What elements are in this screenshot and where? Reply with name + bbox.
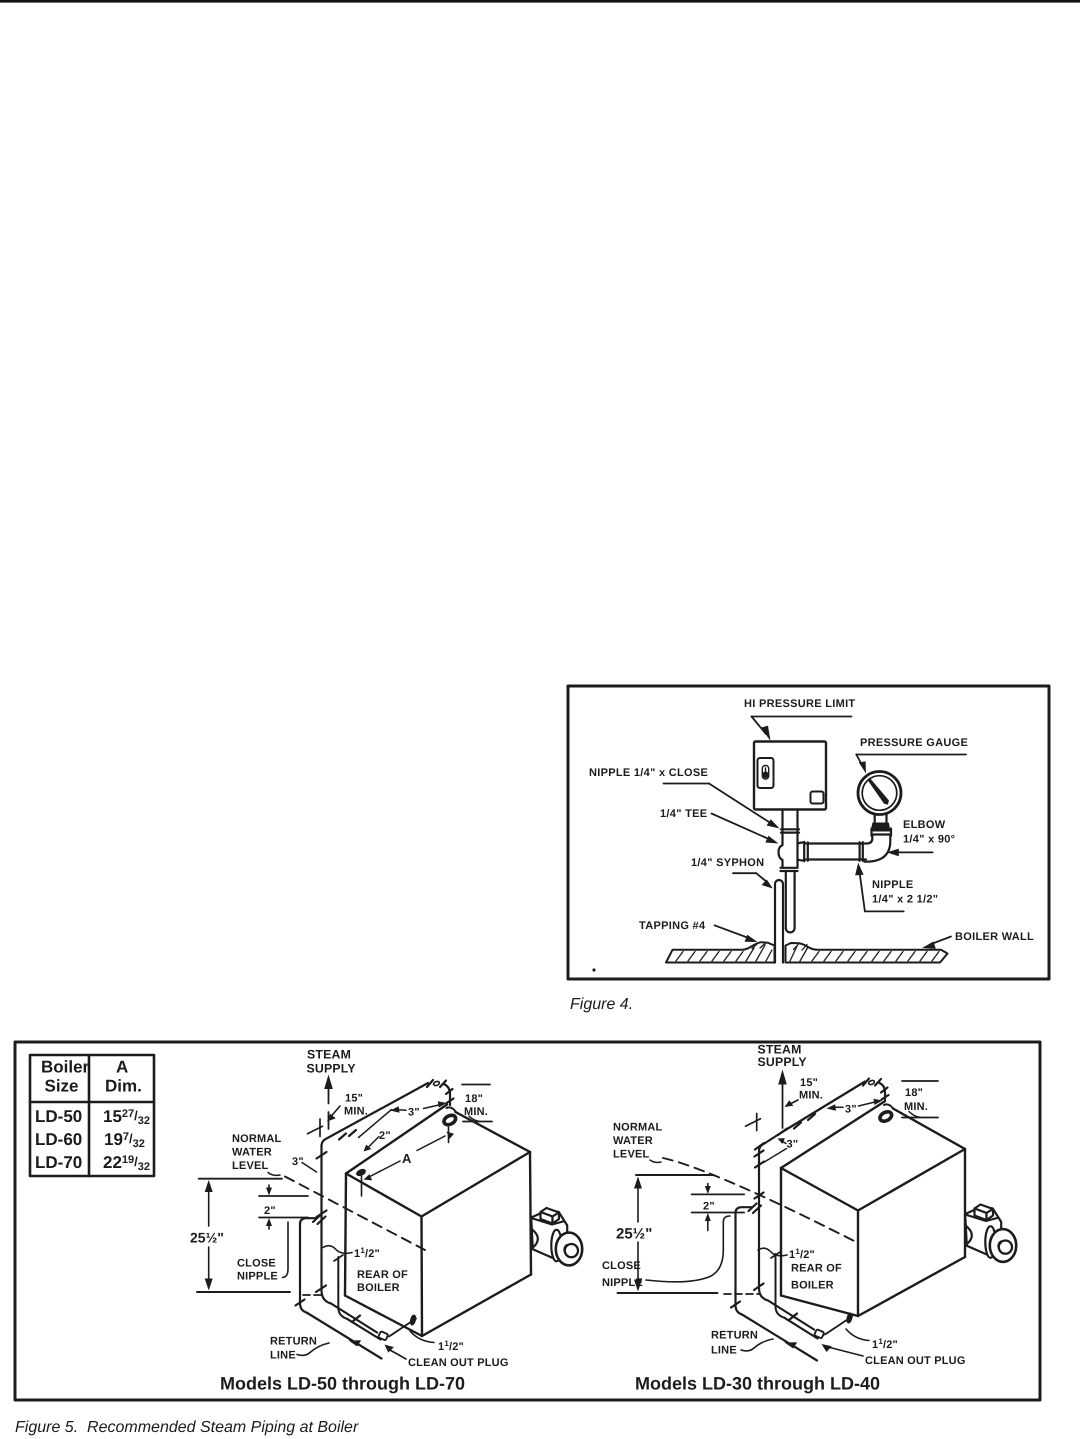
pipe break mark	[319, 1119, 321, 1137]
top tapping hump	[447, 1107, 456, 1111]
svg-text:SUPPLY: SUPPLY	[758, 1055, 807, 1069]
svg-text:MIN.: MIN.	[904, 1101, 928, 1113]
svg-text:CLEAN OUT PLUG: CLEAN OUT PLUG	[408, 1357, 509, 1369]
safety valve left	[531, 1208, 582, 1265]
svg-text:LD-50: LD-50	[35, 1107, 82, 1126]
svg-text:A: A	[402, 1151, 412, 1166]
svg-text:2219/32: 2219/32	[103, 1153, 150, 1173]
riser to equalizer nipple right	[754, 1129, 787, 1301]
svg-text:PRESSURE GAUGE: PRESSURE GAUGE	[860, 737, 968, 749]
small tapping dot	[355, 1167, 367, 1177]
svg-text:1/4" x 90°: 1/4" x 90°	[903, 834, 955, 846]
svg-text:25½": 25½"	[616, 1226, 652, 1243]
svg-text:CLOSE: CLOSE	[602, 1260, 641, 1272]
svg-text:1527/32: 1527/32	[103, 1107, 150, 1127]
return riser (1 1/2) second line	[338, 1257, 347, 1319]
svg-text:NIPPLE: NIPPLE	[237, 1271, 278, 1283]
svg-text:Figure 4.: Figure 4.	[570, 996, 633, 1013]
svg-text:11/2": 11/2"	[438, 1339, 464, 1353]
steam outlet hole	[442, 1113, 457, 1126]
svg-text:ELBOW: ELBOW	[903, 819, 946, 831]
label 1 1/2 upper	[323, 1246, 352, 1254]
2" dimension (water level offset)	[259, 1195, 308, 1197]
table Boiler Size / A Dim.	[30, 1055, 154, 1176]
steam header pipe	[322, 1080, 454, 1146]
return tapping dot right	[845, 1312, 853, 1324]
return line diagonals right	[742, 1301, 818, 1361]
safety valve right	[965, 1205, 1016, 1262]
svg-text:LINE: LINE	[270, 1350, 296, 1362]
svg-text:LEVEL: LEVEL	[613, 1149, 650, 1161]
svg-text:LINE: LINE	[711, 1345, 737, 1357]
svg-text:15": 15"	[800, 1077, 818, 1089]
steam supply arrow right	[782, 1084, 784, 1128]
svg-text:2": 2"	[264, 1205, 276, 1217]
label 18" MIN right	[902, 1080, 938, 1082]
figure 4 border frame	[568, 686, 1049, 979]
speck dot	[592, 968, 595, 971]
svg-text:3": 3"	[787, 1139, 799, 1151]
close nipple leader	[283, 1222, 289, 1278]
switch toggle	[762, 766, 768, 780]
svg-text:NORMAL: NORMAL	[613, 1122, 663, 1134]
svg-text:CLEAN OUT PLUG: CLEAN OUT PLUG	[865, 1355, 966, 1367]
svg-text:3": 3"	[408, 1107, 420, 1119]
svg-text:3": 3"	[845, 1104, 857, 1116]
svg-text:Dim.: Dim.	[105, 1077, 142, 1096]
svg-text:LD-60: LD-60	[35, 1130, 82, 1149]
svg-text:25½": 25½"	[190, 1230, 224, 1246]
return riser second line right	[776, 1254, 785, 1318]
elbow 1/4 x 90	[865, 829, 892, 862]
clean out plug symbol right	[814, 1317, 852, 1339]
tee fitting 1/4	[779, 842, 808, 871]
svg-text:18": 18"	[905, 1087, 923, 1099]
steam riser pipe	[316, 1146, 331, 1304]
svg-text:MIN.: MIN.	[344, 1106, 368, 1118]
nipple 1/4 x close (pipe from switch to tee)	[781, 810, 799, 844]
svg-text:2": 2"	[703, 1201, 715, 1213]
svg-text:BOILER: BOILER	[357, 1282, 400, 1294]
svg-text:MIN.: MIN.	[464, 1106, 488, 1118]
close nipple pipe right	[731, 1204, 761, 1315]
return line diagonals	[307, 1304, 382, 1359]
svg-text:Size: Size	[45, 1077, 79, 1096]
svg-text:MIN.: MIN.	[799, 1090, 823, 1102]
svg-text:LEVEL: LEVEL	[232, 1160, 269, 1172]
return flow arrow	[349, 1340, 362, 1346]
scan edge bar	[0, 0, 1080, 3]
syphon left pipe through wall	[775, 880, 783, 963]
svg-text:RETURN: RETURN	[270, 1336, 317, 1348]
boiler box LD-50	[345, 1105, 531, 1337]
svg-text:1/4" TEE: 1/4" TEE	[660, 808, 707, 820]
svg-text:RETURN: RETURN	[711, 1330, 758, 1342]
svg-text:NIPPLE 1/4" x CLOSE: NIPPLE 1/4" x CLOSE	[589, 767, 708, 779]
svg-text:Boiler: Boiler	[41, 1058, 90, 1077]
svg-text:NORMAL: NORMAL	[232, 1133, 282, 1145]
svg-text:WATER: WATER	[613, 1135, 653, 1147]
pressure gauge G1	[858, 772, 901, 832]
svg-text:LD-70: LD-70	[35, 1153, 82, 1172]
svg-text:11/2": 11/2"	[872, 1337, 898, 1351]
steam supply arrow	[328, 1087, 330, 1104]
wall hatch strokes	[676, 943, 939, 961]
close nipple pipe	[296, 1215, 326, 1313]
svg-text:11/2": 11/2"	[789, 1247, 815, 1261]
pressure switch U1 (HI PRESSURE LIMIT box)	[754, 742, 826, 810]
svg-text:STEAM: STEAM	[307, 1048, 351, 1062]
nipple 1/4 x 2 1/2 (horizontal pipe)	[808, 842, 866, 861]
dashed water level line	[285, 1177, 425, 1251]
dashed water level line right	[663, 1158, 858, 1243]
pipe break mark right	[756, 1114, 758, 1131]
svg-text:Figure 5. Recommended Steam P: Figure 5. Recommended Steam Piping at Bo…	[15, 1419, 359, 1436]
svg-text:NIPPLE: NIPPLE	[602, 1277, 643, 1289]
svg-text:18": 18"	[465, 1093, 483, 1105]
svg-text:15": 15"	[345, 1093, 363, 1105]
svg-text:A: A	[116, 1058, 128, 1077]
return tapping dot	[409, 1314, 417, 1326]
label 1 1/2 upper right	[758, 1248, 787, 1256]
svg-text:BOILER: BOILER	[791, 1280, 834, 1292]
svg-text:TAPPING #4: TAPPING #4	[639, 920, 706, 932]
close nipple leader right	[646, 1216, 730, 1282]
25 1/2 dimension right	[636, 1174, 714, 1176]
svg-text:CLOSE: CLOSE	[237, 1258, 276, 1270]
svg-text:NIPPLE: NIPPLE	[872, 879, 914, 891]
steam header pipe right	[783, 1079, 889, 1132]
svg-text:Models LD-30 through LD-40: Models LD-30 through LD-40	[635, 1374, 880, 1394]
svg-text:REAR OF: REAR OF	[357, 1269, 408, 1281]
svg-text:BOILER WALL: BOILER WALL	[955, 931, 1034, 943]
boiler box LD-30	[781, 1102, 965, 1317]
figure 5 border frame	[15, 1042, 1040, 1400]
dimension A line with ticks	[448, 1127, 450, 1143]
return flow arrow right	[785, 1342, 798, 1348]
25 1/2 dimension	[199, 1178, 282, 1180]
boiler wall hatched band	[666, 942, 948, 962]
label 18" MIN	[462, 1084, 490, 1086]
svg-text:197/32: 197/32	[104, 1130, 145, 1150]
svg-text:WATER: WATER	[232, 1147, 272, 1159]
svg-text:1/4" x 2 1/2": 1/4" x 2 1/2"	[872, 894, 938, 906]
clean out plug symbol	[378, 1319, 416, 1341]
label 1 1/2 lower right	[846, 1329, 869, 1341]
label 1 1/2 lower	[410, 1331, 434, 1343]
top tapping hump right	[884, 1104, 893, 1108]
steam outlet hole right	[878, 1110, 893, 1123]
svg-text:SUPPLY: SUPPLY	[307, 1062, 356, 1076]
svg-text:HI PRESSURE LIMIT: HI PRESSURE LIMIT	[744, 698, 855, 710]
svg-text:11/2": 11/2"	[354, 1246, 380, 1260]
syphon right pipe with U-turn	[786, 871, 795, 932]
2" dimension right	[692, 1193, 745, 1195]
svg-text:Models LD-50 through LD-70: Models LD-50 through LD-70	[220, 1374, 465, 1394]
svg-text:REAR OF: REAR OF	[791, 1263, 842, 1275]
svg-text:2": 2"	[379, 1130, 391, 1142]
svg-text:1/4" SYPHON: 1/4" SYPHON	[691, 857, 764, 869]
